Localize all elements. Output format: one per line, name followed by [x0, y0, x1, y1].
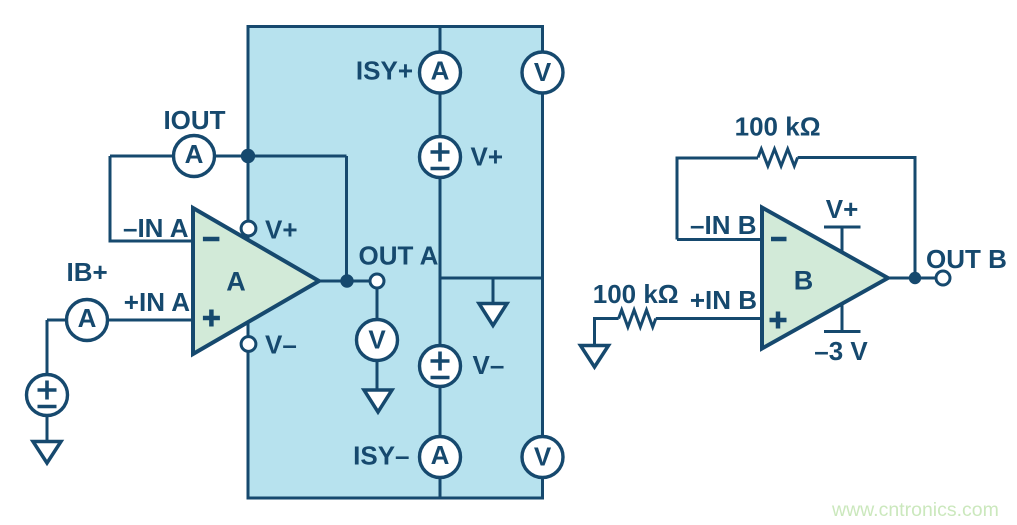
resistor R-in 100k [619, 310, 656, 327]
svg-text:A: A [185, 139, 204, 169]
svg-text:V–: V– [265, 330, 297, 360]
terminal OUT B [936, 271, 950, 285]
resistor R-f 100k [758, 149, 798, 166]
svg-text:A: A [431, 440, 450, 470]
op-amp U-B [762, 208, 888, 349]
svg-text:V+: V+ [471, 142, 504, 172]
junction OUT A [340, 274, 353, 287]
svg-text:A: A [431, 56, 450, 86]
svg-text:A: A [78, 303, 97, 333]
voltmeter bottom right [522, 437, 563, 478]
svg-text:–IN A: –IN A [123, 213, 189, 243]
ammeter IOUT [174, 136, 215, 177]
wire ground to resistor B [595, 319, 619, 345]
svg-text:www.cntronics.com: www.cntronics.com [831, 499, 999, 521]
rail V+ of U-B [824, 227, 861, 252]
wire OUT A to voltmeter [376, 288, 379, 322]
svg-text:+IN B: +IN B [690, 285, 757, 315]
svg-text:OUT B: OUT B [926, 244, 1007, 274]
svg-text:–3 V: –3 V [814, 336, 868, 366]
ground (input divider B) [581, 346, 609, 368]
svg-text:A: A [226, 266, 246, 296]
junction OUT B [909, 272, 921, 284]
wire resistor to output branch [798, 158, 915, 279]
svg-text:IOUT: IOUT [163, 105, 225, 135]
source IB+ [27, 375, 68, 416]
svg-text:IB+: IB+ [67, 257, 108, 287]
DUT supply box [248, 27, 543, 499]
svg-text:100 kΩ: 100 kΩ [593, 279, 679, 309]
wire IB+ left [47, 319, 87, 322]
source V- [420, 346, 461, 387]
pin V- of U-A [241, 337, 256, 352]
wire feedback down to output [345, 156, 348, 281]
source V+ [420, 137, 461, 178]
wire +IN A [87, 319, 193, 322]
ammeter ISY+ [420, 52, 461, 93]
wire IB+ down to source [46, 320, 49, 382]
wire mid horizontal [440, 277, 542, 280]
rail -3V of U-B [824, 304, 861, 332]
wire feedback loop B top [677, 158, 758, 240]
op-amp U-A [193, 208, 319, 354]
pin V+ of U-A [241, 221, 256, 236]
svg-text:V: V [368, 325, 386, 355]
svg-text:ISY+: ISY+ [356, 56, 413, 86]
wire op-amp B output [888, 277, 936, 280]
ground (supply midpoint in box) [479, 304, 507, 326]
svg-text:+IN A: +IN A [124, 287, 190, 317]
terminal OUT A [370, 274, 384, 288]
ground (below OUT A voltmeter) [364, 390, 392, 412]
ground (IB+ source) [33, 442, 61, 464]
svg-text:OUT A: OUT A [359, 241, 439, 271]
svg-text:V+: V+ [265, 215, 298, 245]
wire supply center line [439, 27, 442, 499]
wire source to ground [46, 416, 49, 442]
svg-text:V–: V– [473, 350, 505, 380]
wire voltmeter to ground [376, 360, 379, 390]
svg-text:–IN B: –IN B [690, 210, 756, 240]
svg-text:V: V [534, 442, 552, 472]
svg-text:100 kΩ: 100 kΩ [735, 112, 821, 142]
voltmeter OUT A [357, 320, 398, 361]
wire -IN B [677, 238, 762, 241]
junction IOUT / V+ rail [241, 149, 255, 163]
wire ground stub in box [492, 278, 495, 304]
wire -IN A loop left [110, 156, 193, 241]
ammeter IB+ [67, 300, 108, 341]
wire +IN B [656, 317, 762, 320]
svg-text:ISY–: ISY– [353, 441, 409, 471]
voltmeter top right [522, 52, 563, 93]
svg-text:V+: V+ [826, 194, 859, 224]
wire IOUT feedback top [110, 155, 347, 158]
svg-text:V: V [534, 57, 552, 87]
wire op-amp A output [319, 280, 370, 283]
svg-text:B: B [794, 266, 814, 296]
ammeter ISY- [420, 437, 461, 478]
